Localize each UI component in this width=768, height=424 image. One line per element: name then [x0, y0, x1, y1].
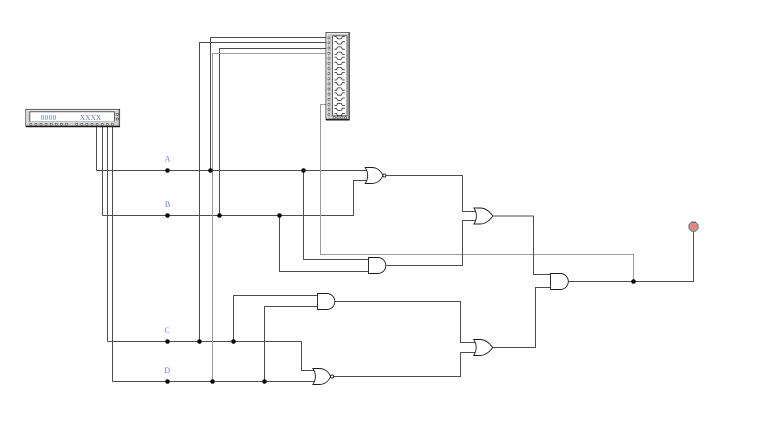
- wire counter pin13 to row A: [96, 126, 98, 171]
- svg-text:XXXX: XXXX: [80, 113, 102, 122]
- junction dot node B label: [165, 213, 170, 218]
- counter display window: [30, 112, 115, 122]
- wire row D bus: [113, 381, 315, 383]
- oscilloscope left pins: [328, 37, 330, 116]
- wire node C branch to and U4 input 1: [234, 296, 318, 342]
- wire row B bus: [103, 181, 368, 216]
- junction dot row B branch: [277, 213, 282, 218]
- wire node A branch to and U3 input 1: [304, 171, 370, 260]
- svg-text:B: B: [165, 200, 170, 209]
- counter component body: [26, 109, 120, 126]
- junction dot row C branch: [231, 339, 236, 344]
- wire nor U6 output to or U5 input 2: [334, 353, 477, 377]
- counter bottom pins: [30, 123, 114, 125]
- junction dot node A label: [165, 168, 170, 173]
- and gate U3: [369, 258, 386, 274]
- led output: [689, 222, 698, 231]
- wire row C bus: [108, 342, 315, 371]
- junction dot row D branch: [262, 379, 267, 384]
- wire and U3 output to or U2 input 2: [386, 221, 476, 266]
- wire scope pin3 to node B: [220, 49, 328, 216]
- wire and U7 output to led: [568, 231, 693, 281]
- oscilloscope channel waveforms: [334, 37, 344, 116]
- svg-text:C: C: [165, 326, 170, 335]
- or gate U2: [474, 208, 493, 224]
- wire counter pin15 to row C: [107, 126, 109, 342]
- wire or U5 output to and U7 input 2: [492, 288, 550, 348]
- junction dot row B scope riser: [217, 213, 222, 218]
- wire scope pin14 feedback to output net: [321, 105, 634, 282]
- and gate U4: [318, 294, 335, 310]
- svg-text:A: A: [165, 155, 171, 164]
- wire and U4 output to or U5 input 1: [335, 302, 476, 343]
- nor gate U1: [365, 168, 386, 184]
- wire counter pin14 to row B: [102, 126, 104, 216]
- wire scope pin1 to node A: [211, 38, 328, 171]
- junction dot output net: [631, 279, 636, 284]
- wire scope pin4 to node D: [213, 54, 328, 382]
- wire or U2 output to and U7 input 1: [492, 216, 550, 275]
- wire row A bus: [97, 170, 368, 172]
- nor gate U6: [313, 369, 334, 385]
- junction dot node D label: [165, 379, 170, 384]
- wire scope pin2 to node C: [200, 43, 328, 342]
- counter right side pins: [116, 113, 118, 120]
- junction dot node C label: [165, 339, 170, 344]
- wire nor U1 output to or U2 input 1: [386, 176, 477, 212]
- wire counter pin16 to row D: [112, 126, 114, 382]
- svg-text:0000: 0000: [41, 113, 57, 122]
- junction dot row D scope riser: [210, 379, 215, 384]
- and gate U7: [551, 274, 569, 290]
- junction dot row A scope riser: [208, 168, 213, 173]
- oscilloscope screen: [333, 36, 348, 116]
- junction dot row C scope riser: [197, 339, 202, 344]
- junction dot row A branch: [301, 168, 306, 173]
- svg-text:D: D: [164, 366, 170, 375]
- wire node B branch to and U3 input 2: [280, 216, 370, 272]
- wire node D branch to and U4 input 2: [265, 307, 318, 382]
- or gate U5: [474, 340, 493, 356]
- oscilloscope bottom pins: [333, 117, 346, 119]
- oscilloscope component body: [326, 33, 350, 120]
